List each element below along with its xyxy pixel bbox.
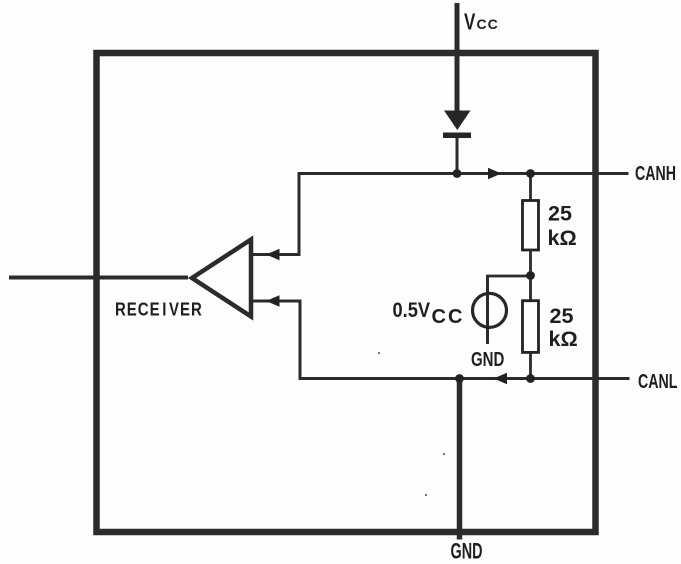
svg-text:V: V xyxy=(464,10,476,35)
svg-text:CC: CC xyxy=(477,16,499,32)
svg-text:25: 25 xyxy=(550,304,574,328)
svg-text:GND: GND xyxy=(471,348,505,371)
svg-text:CC: CC xyxy=(432,306,465,328)
svg-text:0.5V: 0.5V xyxy=(393,299,431,323)
svg-text:kΩ: kΩ xyxy=(548,226,577,250)
svg-text:25: 25 xyxy=(548,201,572,225)
svg-text:kΩ: kΩ xyxy=(549,327,578,351)
svg-text:CANL: CANL xyxy=(638,370,678,393)
svg-text:RECEIVER: RECEIVER xyxy=(115,299,203,320)
svg-text:GND: GND xyxy=(451,539,483,564)
svg-text:CANH: CANH xyxy=(635,162,676,185)
